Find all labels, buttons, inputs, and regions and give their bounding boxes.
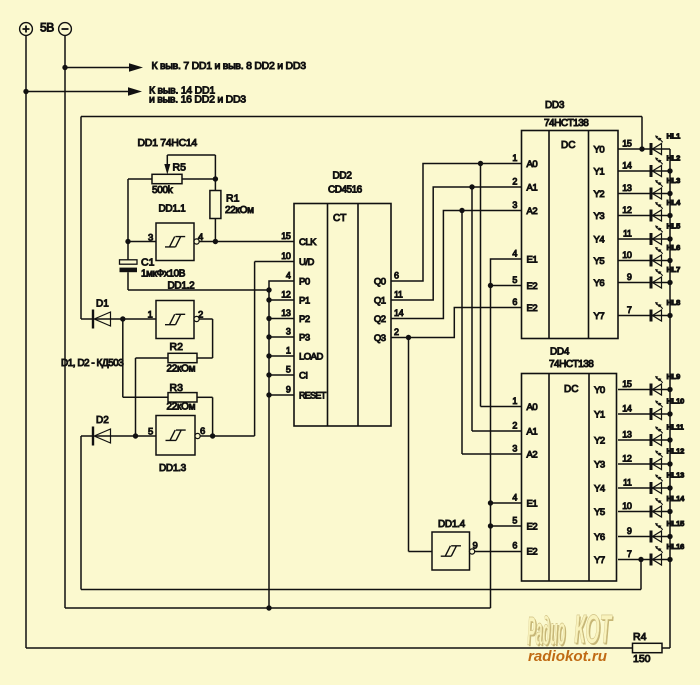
- svg-text:Y2: Y2: [594, 189, 605, 200]
- svg-text:Q3: Q3: [374, 333, 386, 344]
- svg-text:150: 150: [633, 653, 651, 665]
- svg-text:HL16: HL16: [667, 542, 685, 551]
- svg-text:3: 3: [286, 327, 291, 337]
- svg-text:A2: A2: [527, 206, 538, 217]
- svg-text:R1: R1: [226, 193, 240, 205]
- svg-text:13: 13: [622, 430, 632, 440]
- svg-text:A2: A2: [527, 450, 538, 461]
- svg-text:HL1: HL1: [667, 132, 681, 141]
- svg-text:Y6: Y6: [594, 532, 605, 543]
- svg-text:HL12: HL12: [667, 447, 685, 456]
- svg-text:К выв. 7 DD1 и выв. 8 DD2 и DD: К выв. 7 DD1 и выв. 8 DD2 и DD3: [152, 60, 307, 72]
- svg-text:LOAD: LOAD: [299, 352, 324, 363]
- svg-text:DD1.1: DD1.1: [159, 204, 187, 215]
- svg-text:CLK: CLK: [299, 237, 317, 248]
- svg-text:Y4: Y4: [594, 235, 605, 246]
- svg-text:D1: D1: [96, 299, 109, 310]
- svg-text:R3: R3: [170, 382, 184, 394]
- svg-text:P1: P1: [299, 296, 310, 307]
- svg-text:E1: E1: [527, 255, 538, 266]
- svg-text:DD3: DD3: [545, 100, 565, 111]
- svg-text:HL3: HL3: [667, 176, 681, 185]
- svg-text:HL7: HL7: [667, 265, 681, 274]
- svg-text:6: 6: [512, 541, 517, 551]
- svg-text:Y4: Y4: [594, 484, 605, 495]
- svg-text:E1: E1: [527, 499, 538, 510]
- svg-text:Y7: Y7: [594, 311, 605, 322]
- svg-text:A1: A1: [527, 427, 538, 438]
- svg-text:3: 3: [512, 444, 517, 454]
- svg-text:DD2: DD2: [333, 171, 353, 182]
- svg-text:Y0: Y0: [594, 145, 605, 156]
- svg-text:22кОм: 22кОм: [167, 364, 196, 375]
- svg-text:5В: 5В: [40, 21, 54, 35]
- svg-text:U/D: U/D: [299, 257, 315, 268]
- svg-text:9: 9: [627, 526, 632, 536]
- svg-text:Q0: Q0: [374, 277, 386, 288]
- svg-text:C1: C1: [141, 257, 155, 269]
- svg-text:E2: E2: [527, 547, 538, 558]
- svg-text:R2: R2: [170, 341, 184, 353]
- svg-text:5: 5: [512, 275, 517, 285]
- svg-text:CD4516: CD4516: [328, 185, 363, 196]
- svg-text:74HCT138: 74HCT138: [544, 118, 589, 129]
- svg-text:HL13: HL13: [667, 471, 685, 480]
- svg-text:Y3: Y3: [594, 211, 605, 222]
- svg-text:radiokot.ru: radiokot.ru: [528, 649, 607, 665]
- svg-text:1: 1: [148, 310, 153, 321]
- svg-text:DC: DC: [561, 140, 575, 151]
- svg-text:15: 15: [622, 379, 632, 389]
- svg-text:9: 9: [473, 541, 478, 552]
- svg-text:HL15: HL15: [667, 519, 685, 528]
- svg-text:D2: D2: [96, 415, 109, 426]
- svg-text:13: 13: [622, 183, 632, 193]
- svg-text:10: 10: [622, 501, 632, 511]
- svg-text:15: 15: [622, 139, 632, 149]
- svg-text:14: 14: [394, 308, 404, 318]
- svg-text:HL6: HL6: [667, 243, 681, 252]
- svg-text:6: 6: [512, 297, 517, 307]
- svg-text:6: 6: [394, 271, 399, 281]
- svg-text:Y6: Y6: [594, 278, 605, 289]
- svg-text:15: 15: [281, 231, 291, 241]
- svg-text:74HCT138: 74HCT138: [549, 359, 594, 370]
- svg-text:A0: A0: [527, 159, 538, 170]
- svg-text:Y5: Y5: [594, 507, 605, 518]
- svg-text:HL9: HL9: [667, 372, 681, 381]
- svg-text:Y1: Y1: [594, 167, 605, 178]
- svg-text:HL4: HL4: [667, 198, 682, 207]
- svg-text:22кОм: 22кОм: [167, 402, 196, 413]
- svg-text:HL8: HL8: [667, 298, 681, 307]
- svg-text:D1, D2 - КД503: D1, D2 - КД503: [61, 358, 124, 369]
- svg-text:HL5: HL5: [667, 222, 681, 231]
- svg-text:P0: P0: [299, 277, 310, 288]
- svg-text:Y7: Y7: [594, 555, 605, 566]
- svg-text:3: 3: [148, 233, 153, 244]
- svg-text:Радио: Радио: [527, 610, 565, 654]
- svg-text:КОТ: КОТ: [574, 606, 612, 652]
- svg-text:9: 9: [627, 272, 632, 282]
- svg-text:5: 5: [512, 516, 517, 526]
- svg-text:и выв. 16 DD2 и DD3: и выв. 16 DD2 и DD3: [149, 94, 246, 106]
- svg-text:1мкФх10В: 1мкФх10В: [141, 269, 186, 280]
- svg-text:1: 1: [512, 153, 517, 163]
- svg-text:HL2: HL2: [667, 154, 681, 163]
- svg-text:1: 1: [286, 346, 291, 356]
- svg-text:14: 14: [622, 161, 632, 171]
- svg-text:HL11: HL11: [667, 423, 684, 432]
- svg-text:E2: E2: [527, 522, 538, 533]
- svg-text:Q1: Q1: [374, 296, 386, 307]
- svg-text:10: 10: [622, 250, 632, 260]
- svg-text:3: 3: [512, 200, 517, 210]
- svg-text:E2: E2: [527, 303, 538, 314]
- svg-text:10: 10: [281, 251, 291, 261]
- svg-text:Y1: Y1: [594, 410, 605, 421]
- svg-text:11: 11: [623, 478, 632, 488]
- svg-text:12: 12: [622, 454, 632, 464]
- svg-text:DD1 74HC14: DD1 74HC14: [138, 137, 198, 149]
- svg-text:CI: CI: [299, 371, 308, 382]
- svg-text:7: 7: [627, 549, 632, 559]
- svg-text:DC: DC: [564, 384, 578, 395]
- svg-text:P2: P2: [299, 314, 310, 325]
- svg-text:9: 9: [286, 385, 291, 395]
- svg-text:5: 5: [148, 427, 153, 438]
- svg-text:Q2: Q2: [374, 314, 386, 325]
- svg-text:12: 12: [281, 290, 291, 300]
- svg-text:4: 4: [512, 493, 517, 503]
- svg-text:4: 4: [512, 249, 517, 259]
- svg-text:Y3: Y3: [594, 460, 605, 471]
- svg-text:2: 2: [394, 327, 399, 337]
- svg-text:7: 7: [627, 305, 632, 315]
- svg-text:DD1.4: DD1.4: [438, 519, 466, 530]
- svg-text:Y0: Y0: [594, 385, 605, 396]
- svg-text:A0: A0: [527, 402, 538, 413]
- svg-text:11: 11: [623, 229, 632, 239]
- svg-text:HL10: HL10: [667, 397, 685, 406]
- svg-text:13: 13: [281, 308, 291, 318]
- svg-text:500k: 500k: [152, 185, 174, 196]
- svg-text:Y5: Y5: [594, 256, 605, 267]
- svg-text:R4: R4: [633, 631, 647, 643]
- svg-text:12: 12: [622, 205, 632, 215]
- svg-text:14: 14: [622, 404, 632, 414]
- svg-text:1: 1: [512, 396, 517, 406]
- svg-text:CT: CT: [333, 213, 346, 224]
- svg-text:R5: R5: [173, 162, 187, 174]
- svg-text:22кОм: 22кОм: [225, 205, 254, 216]
- svg-text:DD4: DD4: [550, 347, 570, 358]
- svg-text:2: 2: [512, 421, 517, 431]
- svg-text:11: 11: [394, 290, 403, 300]
- svg-text:4: 4: [286, 271, 291, 281]
- svg-text:P3: P3: [299, 333, 310, 344]
- svg-text:Y2: Y2: [594, 436, 605, 447]
- svg-text:E2: E2: [527, 281, 538, 292]
- svg-text:5: 5: [286, 365, 291, 375]
- svg-text:A1: A1: [527, 183, 538, 194]
- svg-text:DD1.2: DD1.2: [168, 281, 196, 292]
- svg-text:DD1.3: DD1.3: [159, 463, 187, 474]
- svg-text:2: 2: [512, 177, 517, 187]
- svg-text:RESET: RESET: [299, 391, 327, 401]
